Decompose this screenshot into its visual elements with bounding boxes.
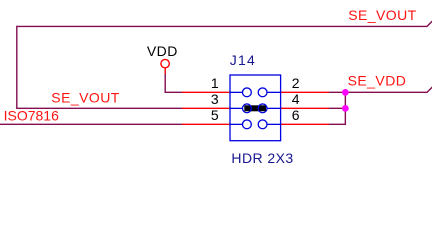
svg-text:6: 6: [292, 107, 300, 123]
svg-text:3: 3: [211, 91, 219, 107]
connector J14 body: [230, 75, 281, 141]
svg-text:4: 4: [292, 91, 300, 107]
junction dot pin2/SE_VDD: [342, 89, 349, 96]
svg-text:VDD: VDD: [147, 43, 178, 59]
wire SE_VOUT top horizontal: [17, 21, 432, 109]
wire right vertical bus: [344, 92, 346, 124]
J14 pad circle pin3: [243, 104, 252, 113]
J14 pad circle pin1: [243, 88, 252, 97]
connector J14 pin 2 stub: [281, 91, 329, 93]
svg-text:SE_VDD: SE_VDD: [348, 73, 407, 89]
svg-text:5: 5: [211, 107, 219, 123]
wire ISO7816 to pin 5: [0, 123, 183, 125]
power symbol VDD circle: [161, 59, 169, 67]
connector J14 pin 4 stub: [281, 107, 329, 109]
svg-text:HDR 2X3: HDR 2X3: [231, 150, 293, 166]
connector J14 pin 5 stub: [182, 123, 230, 125]
wire pin4 to junction: [329, 107, 346, 109]
wire SE_VDD from junction to off-page right: [345, 87, 432, 93]
J14 pad circle pin5: [243, 120, 252, 129]
jumper shunt bar pins 3-4: [244, 105, 266, 111]
connector J14 pin 6 stub: [281, 123, 329, 125]
junction dot pin4: [342, 105, 349, 112]
connector J14 pin 1 stub: [182, 91, 230, 93]
svg-text:1: 1: [211, 75, 219, 91]
connector J14 pin 3 stub: [182, 107, 230, 109]
svg-text:ISO7816: ISO7816: [4, 108, 59, 124]
J14 row2 inner leads: [230, 107, 242, 109]
svg-text:SE_VOUT: SE_VOUT: [51, 90, 120, 106]
J14 pad circle pin6: [258, 120, 267, 129]
wire pin6 to vertical: [329, 123, 347, 125]
wire VDD to pin 1: [165, 74, 182, 92]
svg-text:2: 2: [292, 75, 300, 91]
wire pin2 to junction: [329, 91, 346, 93]
wire SE_VOUT left to pin 3: [16, 107, 182, 109]
J14 pad circle pin2 col: [258, 88, 267, 97]
svg-text:SE_VOUT: SE_VOUT: [348, 7, 417, 23]
J14 row1 inner leads: [230, 91, 242, 93]
J14 pad circle pin4: [258, 104, 267, 113]
svg-text:J14: J14: [230, 52, 256, 68]
J14 row3 inner leads: [230, 123, 242, 125]
power symbol VDD pin stub: [164, 68, 166, 75]
